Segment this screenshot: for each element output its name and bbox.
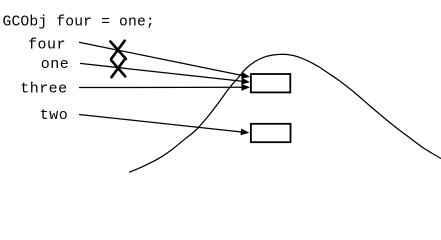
svg-text:one: one xyxy=(41,56,69,73)
svg-text:two: two xyxy=(40,107,68,124)
arrow four to box A xyxy=(79,42,244,75)
object box A xyxy=(251,74,290,92)
cross-out X on one arrow xyxy=(111,60,125,77)
arrow one to box A xyxy=(80,63,244,81)
svg-text:four: four xyxy=(28,36,66,53)
arrow three to box A xyxy=(79,86,244,88)
arrow two to box B xyxy=(79,115,243,133)
object box B xyxy=(251,124,291,142)
svg-text:three: three xyxy=(20,81,67,98)
heap region curve xyxy=(129,54,441,172)
cross-out X on four arrow xyxy=(110,41,126,59)
svg-text:GCObj four = one;: GCObj four = one; xyxy=(3,15,155,31)
